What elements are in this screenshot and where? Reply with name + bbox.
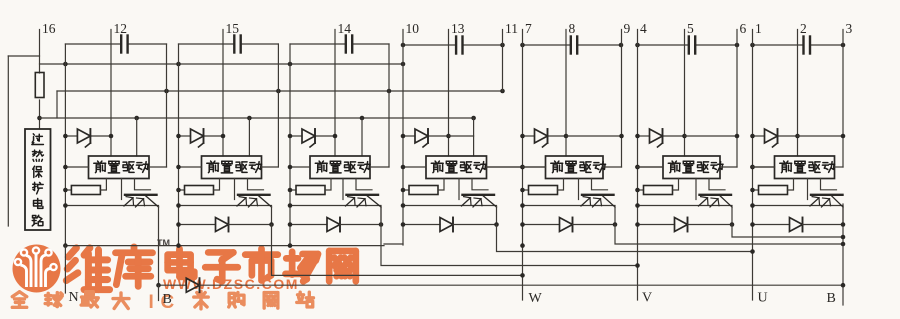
svg-text:12: 12 [114, 21, 128, 36]
svg-text:11: 11 [505, 21, 518, 36]
svg-text:8: 8 [569, 21, 576, 36]
svg-text:2: 2 [800, 21, 807, 36]
svg-text:16: 16 [42, 21, 56, 36]
svg-text:I: I [149, 292, 154, 313]
svg-text:B: B [163, 292, 172, 307]
svg-text:9: 9 [624, 21, 631, 36]
svg-text:15: 15 [226, 21, 240, 36]
svg-text:N: N [69, 290, 79, 305]
svg-text:5: 5 [687, 21, 694, 36]
svg-text:B: B [827, 291, 836, 306]
svg-text:13: 13 [451, 21, 465, 36]
svg-text:1: 1 [755, 21, 762, 36]
svg-text:10: 10 [406, 21, 420, 36]
svg-text:14: 14 [338, 21, 352, 36]
svg-text:6: 6 [740, 21, 747, 36]
svg-text:W: W [529, 291, 543, 306]
svg-text:7: 7 [525, 21, 532, 36]
svg-text:WWW.DZSC.COM: WWW.DZSC.COM [163, 276, 299, 292]
svg-text:U: U [758, 291, 768, 306]
svg-text:3: 3 [846, 21, 853, 36]
svg-text:4: 4 [640, 21, 647, 36]
svg-text:V: V [642, 291, 652, 306]
